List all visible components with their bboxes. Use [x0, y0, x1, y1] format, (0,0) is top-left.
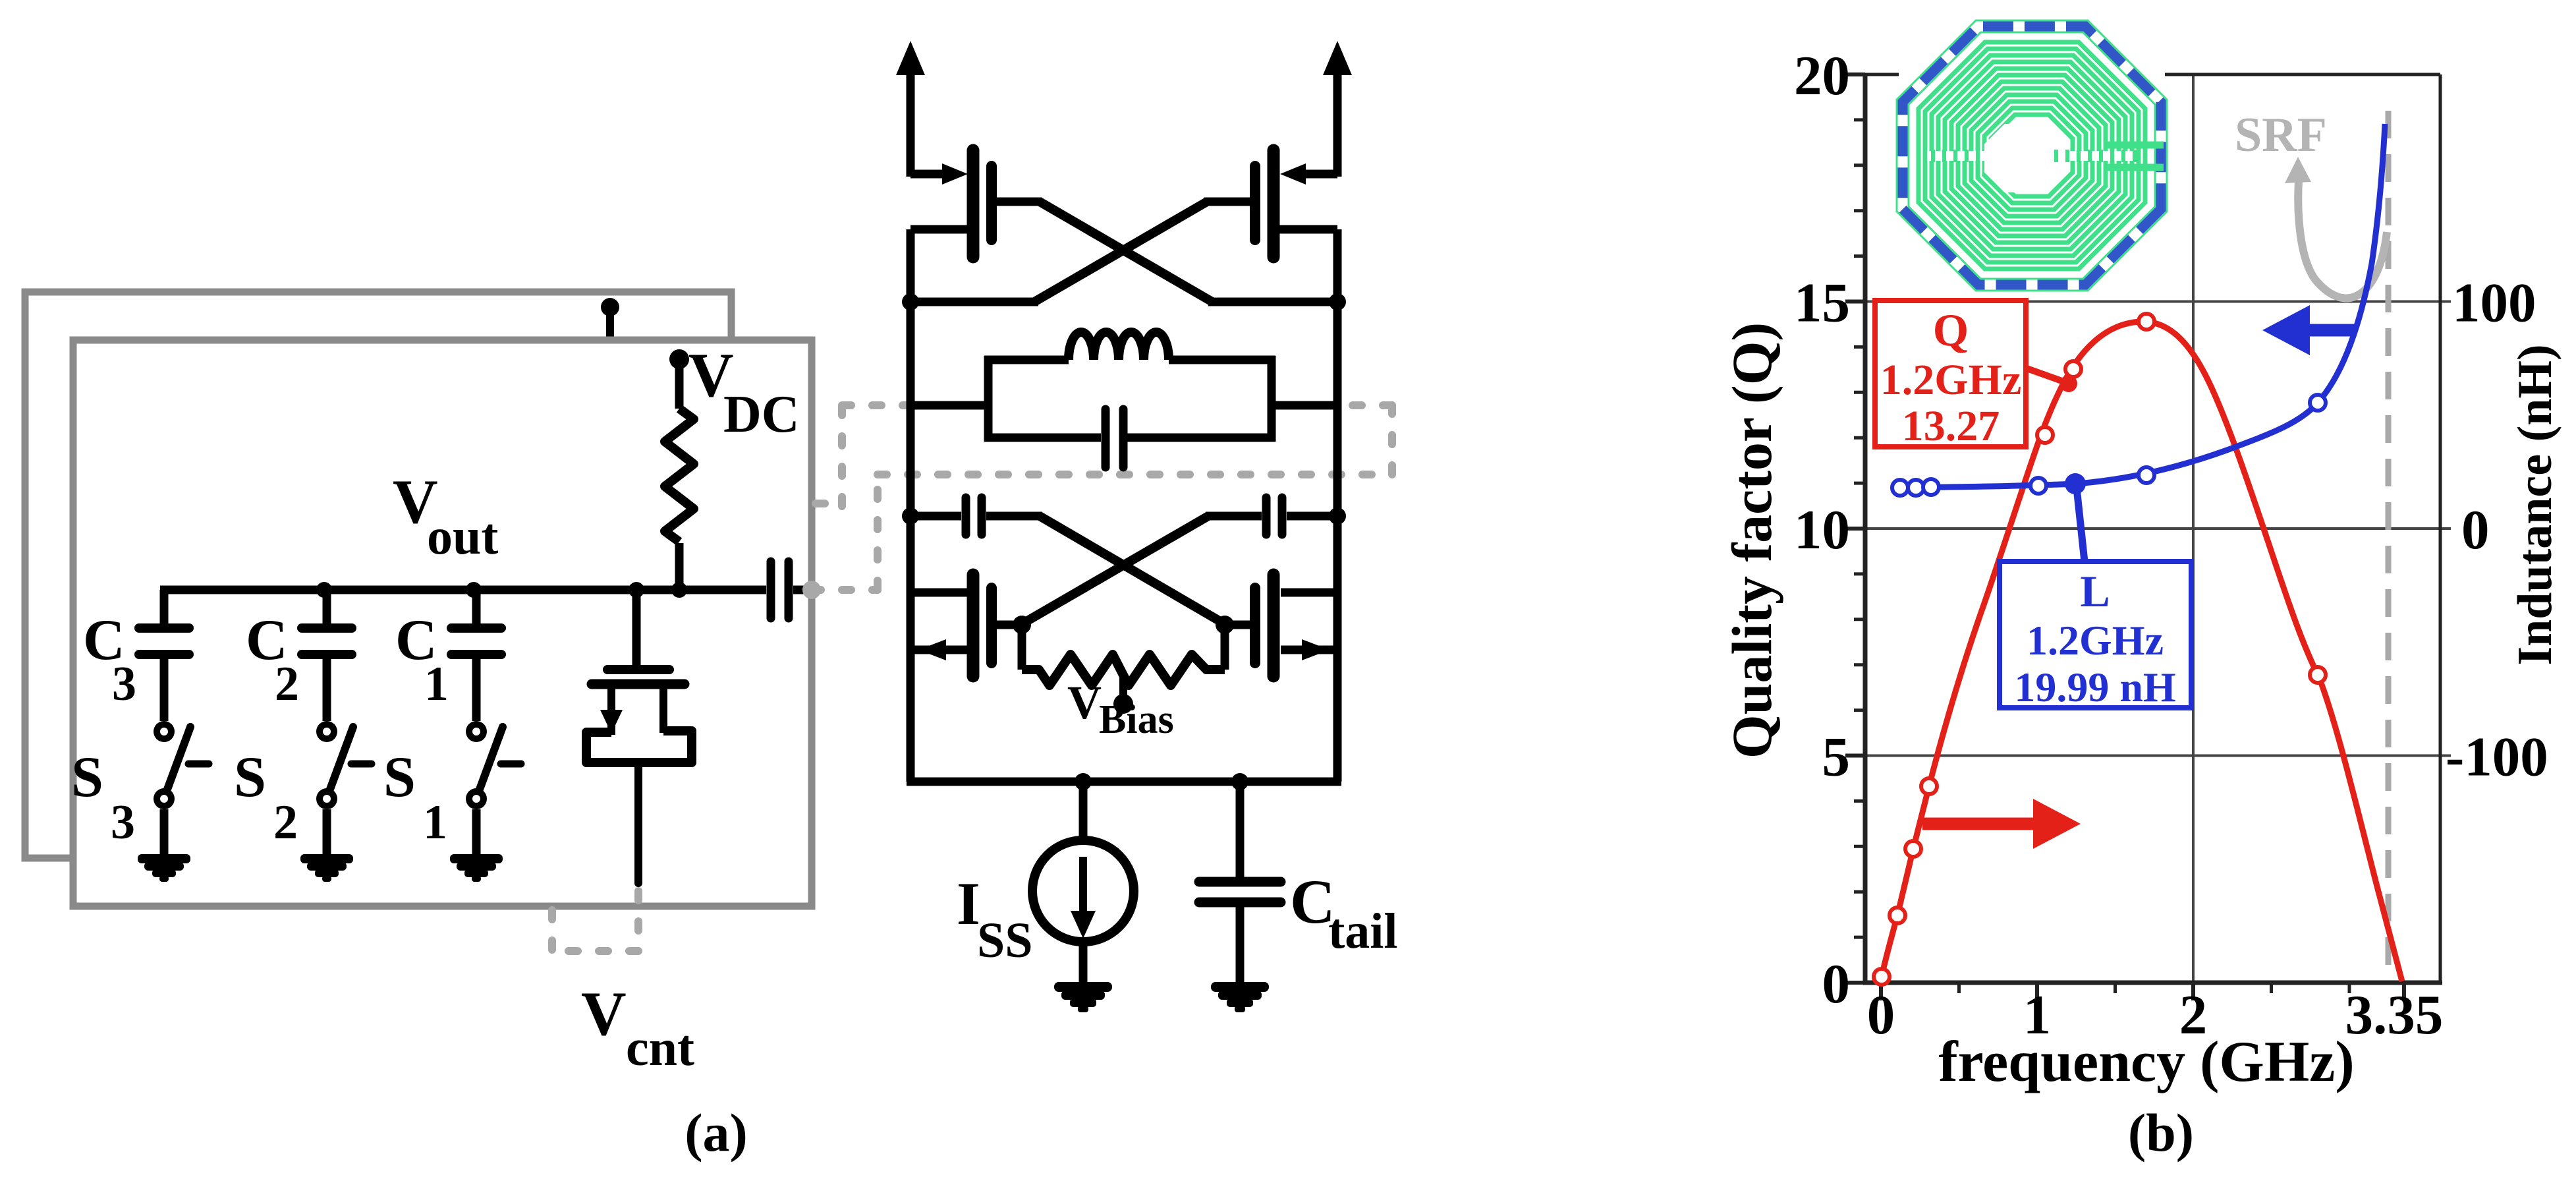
plot frame — [1863, 74, 1868, 983]
tank capacitor — [1102, 409, 1110, 467]
resistor R (VDC bias) — [665, 409, 694, 542]
current source ISS — [1079, 782, 1088, 841]
ground — [300, 854, 353, 863]
PMOS M1 (left) — [910, 170, 945, 179]
svg-text:DC: DC — [723, 386, 800, 444]
svg-text:S: S — [234, 745, 266, 809]
svg-text:Quality factor (Q): Quality factor (Q) — [1720, 322, 1783, 759]
capacitor C3 — [160, 590, 169, 624]
cross-coupling wires (NMOS gates) — [1040, 516, 1226, 625]
svg-text:15: 15 — [1794, 272, 1850, 334]
left rail — [907, 229, 915, 652]
svg-text:V: V — [1067, 676, 1102, 729]
svg-text:Q: Q — [1933, 305, 1969, 356]
wire — [323, 809, 331, 855]
gray dashed links (a)->(b) tank — [816, 500, 845, 507]
blue bold marker + callout — [2065, 473, 2086, 494]
svg-text:(a): (a) — [685, 1103, 748, 1163]
gridlines — [1865, 755, 2451, 757]
svg-text:Bias: Bias — [1099, 697, 1174, 742]
capacitor C1 — [472, 590, 481, 624]
bias resistor between gates — [1018, 625, 1026, 670]
VBias tap — [1119, 678, 1127, 700]
coupling capacitor of block (a) — [767, 562, 775, 618]
red Q curve — [1881, 322, 2402, 981]
svg-text:S: S — [383, 745, 416, 809]
ground — [138, 854, 190, 863]
svg-text:1.2GHz: 1.2GHz — [2027, 617, 2164, 664]
svg-text:2: 2 — [275, 657, 299, 711]
svg-text:SRF: SRF — [2235, 108, 2327, 162]
svg-text:2: 2 — [273, 795, 298, 850]
switch S1 — [466, 721, 487, 742]
svg-text:0: 0 — [1867, 984, 1895, 1046]
VDC terminal of background copy — [606, 306, 614, 340]
svg-text:cnt: cnt — [626, 1019, 694, 1076]
svg-text:3.35: 3.35 — [2345, 984, 2444, 1046]
inductor L — [1069, 332, 1169, 360]
svg-text:20: 20 — [1794, 45, 1850, 107]
svg-text:1: 1 — [423, 795, 447, 850]
capacitor C2 — [323, 590, 331, 624]
ground — [1211, 982, 1269, 992]
coupling capacitor row — [902, 507, 919, 525]
dashed Vcnt link — [634, 891, 642, 950]
cross-coupling wires (PMOS) — [1040, 202, 1212, 302]
tail node rail — [907, 650, 915, 782]
wire — [675, 359, 684, 409]
LC tank — [910, 401, 992, 410]
blue left-arrow (L axis pointer) — [2307, 324, 2355, 337]
Vout bus wire — [160, 586, 766, 594]
blue L curve — [1896, 124, 2385, 488]
NMOS M4 (right) — [1281, 589, 1337, 597]
svg-text:5: 5 — [1822, 726, 1851, 788]
red annotation box Q 1.2GHz 13.27 — [1875, 301, 2026, 447]
svg-text:S: S — [71, 745, 103, 809]
varactor MOS (Vcnt tuning) — [632, 590, 641, 667]
axis ticks bottom — [1879, 983, 1883, 1000]
outer block copy box — [25, 292, 731, 858]
svg-text:frequency (GHz): frequency (GHz) — [1938, 1030, 2354, 1094]
inner block box — [73, 340, 812, 906]
svg-text:(b): (b) — [2128, 1103, 2194, 1163]
ground — [450, 854, 503, 863]
capacitor Ctail — [1236, 782, 1245, 878]
gray curved arrow to SRF — [2298, 181, 2387, 298]
svg-text:1.2GHz: 1.2GHz — [1880, 356, 2021, 404]
NMOS M3 (left) — [910, 589, 967, 597]
VDC terminal dot — [669, 349, 689, 369]
svg-text:0: 0 — [2461, 499, 2490, 561]
gray node joining dashed link — [802, 581, 821, 599]
SRF dashed line — [2386, 111, 2392, 981]
svg-text:out: out — [427, 507, 498, 565]
inductor layout inset — [1899, 13, 2165, 298]
wire — [675, 543, 684, 590]
axis ticks left — [1845, 981, 1865, 985]
right rail — [1333, 229, 1342, 652]
svg-text:1: 1 — [424, 657, 449, 711]
svg-text:3: 3 — [112, 657, 136, 711]
supply arrow left — [907, 71, 915, 177]
switch S2 — [316, 721, 337, 742]
wire — [472, 809, 481, 855]
switch S3 — [154, 721, 175, 742]
supply arrow right — [1333, 71, 1342, 177]
blue data markers — [1892, 480, 1908, 496]
svg-text:13.27: 13.27 — [1902, 402, 2000, 450]
red data markers — [1874, 969, 1890, 985]
svg-text:100: 100 — [2452, 272, 2536, 334]
wire — [160, 809, 169, 855]
svg-text:SS: SS — [977, 913, 1033, 968]
svg-text:19.99 nH: 19.99 nH — [2014, 664, 2175, 710]
svg-text:0: 0 — [1822, 953, 1851, 1015]
svg-text:Indutance (nH): Indutance (nH) — [2508, 344, 2562, 665]
svg-text:-100: -100 — [2446, 726, 2548, 788]
svg-text:tail: tail — [1328, 904, 1398, 959]
svg-text:V: V — [581, 979, 627, 1049]
red right-arrow (Q axis pointer) — [1922, 818, 2034, 830]
svg-text:3: 3 — [111, 795, 135, 850]
ground — [1054, 982, 1112, 992]
PMOS M2 (right) — [1303, 170, 1337, 179]
node dots on bus — [316, 582, 332, 598]
blue annotation box L 1.2GHz 19.99 nH — [2000, 562, 2191, 708]
svg-text:L: L — [2080, 566, 2110, 616]
svg-text:10: 10 — [1794, 499, 1850, 561]
red annotation callout — [2021, 366, 2067, 383]
